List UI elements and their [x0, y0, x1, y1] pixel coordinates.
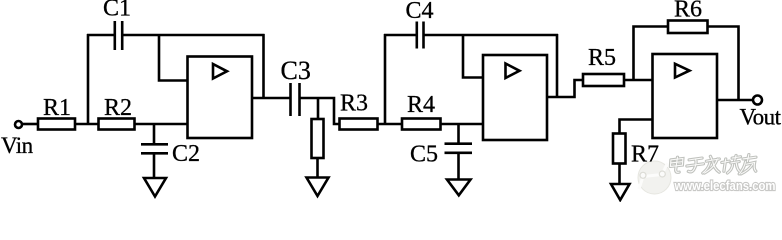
svg-text:C1: C1 [103, 0, 131, 22]
svg-text:C4: C4 [406, 0, 434, 24]
svg-text:Vout: Vout [740, 105, 782, 130]
svg-text:R3: R3 [340, 91, 368, 117]
capacitor C4 [417, 22, 424, 49]
wire branch down to resistor R8 [317, 98, 320, 119]
svg-text:C3: C3 [281, 56, 311, 85]
wire U2 output with jog up to R5 [547, 80, 583, 97]
svg-text:R7: R7 [631, 142, 659, 168]
resistor R3 [340, 119, 378, 130]
resistor R2 [99, 119, 135, 130]
wire branch to U2 inverting input [463, 35, 483, 78]
watermark text 电子发烧友 (drawn strokes) [670, 155, 757, 174]
resistor R6 [668, 21, 708, 34]
wire R6 left leg [634, 27, 669, 81]
wire C2 to ground [153, 153, 156, 178]
svg-text:www.elecfans.com: www.elecfans.com [674, 178, 776, 193]
capacitor C2 [141, 144, 168, 153]
resistor R7 [613, 134, 626, 164]
wire R8 to ground [316, 158, 319, 178]
resistor R1 [38, 119, 75, 130]
wire R5 to op-amp U3 [624, 79, 653, 82]
wire U3 non-inverting input to R7 [620, 120, 653, 134]
wire C5 to ground [457, 153, 460, 180]
wire U3 output [717, 99, 753, 102]
svg-text:R4: R4 [407, 92, 435, 118]
output terminal Vout [753, 96, 762, 105]
resistor R8 vertical [312, 119, 324, 158]
capacitor C2 branch wire [153, 124, 156, 144]
wire U1 output [252, 97, 290, 100]
svg-text:C5: C5 [410, 142, 438, 168]
svg-text:C2: C2 [172, 141, 200, 167]
wire feedback down to U1 output [262, 34, 265, 98]
ground below R8 [307, 178, 329, 197]
capacitor C1 [115, 21, 122, 50]
ground below C2 [144, 178, 166, 197]
svg-text:R2: R2 [104, 95, 132, 121]
wire C4 right to feedback corner [425, 34, 559, 37]
capacitor C5 [445, 144, 473, 153]
op-amp U1 [188, 57, 253, 139]
resistor R4 [402, 119, 441, 130]
op-amp U2 [483, 55, 547, 140]
wire R6 right leg down to output [708, 27, 739, 101]
ground below R7 [611, 184, 630, 200]
watermark logo disc [638, 161, 671, 194]
wire C4 left [384, 34, 416, 37]
wire C3 right with jog down to R3 [301, 98, 340, 124]
wire C1 left [87, 34, 114, 37]
wire C1 right to feedback corner [123, 34, 264, 37]
capacitor C3 [291, 83, 300, 116]
op-amp U3 [653, 54, 718, 138]
wire branch to U1 inverting input [159, 35, 188, 81]
wire input to R1 [22, 123, 38, 126]
svg-text:R1: R1 [43, 95, 71, 121]
resistor R5 [583, 74, 624, 86]
input terminal Vin [15, 121, 22, 128]
wire R1 to R2 [75, 123, 99, 126]
wire R2 to op-amp U1 [135, 123, 188, 126]
wire feedback down to U2 output [556, 34, 559, 97]
svg-text:R6: R6 [674, 0, 702, 23]
ground below C5 [447, 180, 471, 196]
wire R7 to ground [618, 164, 621, 185]
svg-text:Vin: Vin [1, 133, 34, 158]
capacitor C5 branch wire [457, 124, 460, 143]
svg-text:R5: R5 [588, 45, 616, 71]
node B vertical wire to C4 [384, 34, 387, 124]
wire R3 to R4 [378, 123, 403, 126]
wire R4 to op-amp U2 [441, 123, 484, 126]
node A vertical wire to C1 [87, 34, 90, 124]
